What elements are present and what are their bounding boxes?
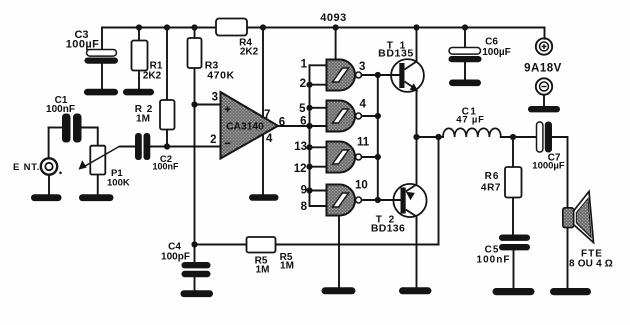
- ground below R1: [123, 89, 154, 96]
- resistor R3: [188, 38, 202, 68]
- wire R2 bottom lead: [166, 130, 168, 147]
- NAND gate G3 (pins 13,12,11): [327, 142, 362, 173]
- potentiometer P1 body: [90, 146, 105, 175]
- label R5 first: [255, 256, 270, 276]
- svg-text:1: 1: [301, 59, 308, 71]
- label R5 second: [280, 252, 294, 272]
- input jack ENT: [41, 158, 57, 174]
- label FTE speaker: [569, 249, 613, 270]
- wire gate1 input pin1: [310, 64, 327, 66]
- NAND gate G4 (pins 9,8,10): [327, 185, 362, 216]
- svg-text:3: 3: [212, 92, 218, 104]
- wire R1 bottom lead: [138, 71, 140, 90]
- wire R2 top lead: [166, 28, 168, 101]
- wire R3 bottom lead to node: [194, 68, 196, 105]
- wire gate4 body to ground: [338, 216, 340, 289]
- resistor R5: [247, 237, 276, 253]
- battery minus terminal: [536, 78, 552, 94]
- ground below P1: [79, 194, 114, 201]
- label P1: [107, 168, 130, 189]
- wire feedback horizontal through R5: [195, 244, 439, 246]
- wire node to C4/R5 vertical: [194, 105, 196, 245]
- wire R6 top lead: [512, 137, 514, 167]
- label C5: [477, 245, 511, 266]
- ground below C4: [181, 290, 214, 297]
- ground below C5: [493, 288, 535, 295]
- svg-text:100nF: 100nF: [152, 162, 179, 172]
- label C1: [46, 95, 75, 115]
- svg-text:2: 2: [210, 134, 216, 146]
- wire C2 to op-amp pin2: [150, 146, 221, 148]
- svg-text:100pF: 100pF: [161, 252, 190, 263]
- resistor R6: [505, 167, 522, 198]
- NAND gate G2 (pins 5,6,4): [327, 101, 362, 132]
- svg-text:100K: 100K: [107, 178, 130, 189]
- input jack period mark: [59, 172, 62, 175]
- svg-text:9A18V: 9A18V: [524, 63, 562, 75]
- svg-text:1M: 1M: [280, 261, 294, 272]
- svg-text:2K2: 2K2: [143, 71, 162, 82]
- wire T2 emitter up: [416, 137, 418, 185]
- svg-text:4: 4: [266, 133, 273, 145]
- capacitor C5: [499, 235, 530, 251]
- svg-text:12: 12: [294, 163, 307, 175]
- battery plus terminal: [536, 38, 552, 54]
- svg-text:7: 7: [264, 109, 270, 121]
- svg-text:100nF: 100nF: [477, 255, 511, 266]
- wire gate4 output to T2 base: [362, 199, 401, 201]
- svg-text:4R7: 4R7: [481, 183, 501, 194]
- wire gate2 output: [362, 115, 378, 117]
- wire C6 to ground: [464, 63, 466, 80]
- wire P1 bottom to ground: [97, 175, 99, 195]
- speaker FTE: [563, 192, 594, 243]
- svg-text:BD136: BD136: [371, 223, 405, 235]
- svg-text:6: 6: [279, 117, 285, 129]
- wire inductor to C7: [501, 136, 537, 138]
- capacitor C6 electrolytic: [449, 48, 482, 63]
- op-amp U1 CA3140: [221, 92, 279, 159]
- wire input jack drop: [48, 128, 50, 158]
- wire 4093 supply from rail: [335, 28, 337, 61]
- svg-text:2K2: 2K2: [240, 47, 259, 58]
- label inductor C1 47uF: [456, 107, 484, 126]
- wire C5 to ground: [513, 251, 515, 289]
- transistor T2 BD136: [393, 184, 426, 217]
- svg-text:4093: 4093: [320, 12, 346, 24]
- svg-text:E NT.: E NT.: [13, 162, 40, 173]
- svg-text:2: 2: [300, 78, 306, 90]
- wire C4 top lead: [194, 245, 196, 263]
- wire R6 to C5: [512, 198, 514, 235]
- wire op-amp output to gate inputs: [278, 125, 327, 127]
- svg-text:10: 10: [355, 180, 368, 192]
- capacitor C1: [62, 114, 82, 143]
- inductor coil 47uF: [443, 128, 501, 137]
- label C3: [66, 29, 99, 51]
- NAND gate G1 (pins 1,2,3): [327, 60, 362, 91]
- wire gate3 input pin12: [310, 166, 327, 168]
- wire C3 drop from rail: [101, 28, 103, 50]
- ground op-amp pin4: [249, 194, 279, 200]
- svg-text:8: 8: [301, 201, 308, 213]
- ground below input jack: [31, 194, 62, 201]
- wire R1 top lead: [138, 28, 140, 41]
- resistor R2: [160, 100, 175, 130]
- wire input jack to ground: [48, 175, 50, 194]
- wire gate4 input pin9: [310, 190, 327, 192]
- wire top supply rail left segment: [102, 27, 216, 29]
- wire op-amp pin7/pin4 vertical: [262, 28, 264, 195]
- wire T2 collector to ground: [416, 217, 418, 289]
- svg-text:CA3140: CA3140: [226, 122, 264, 133]
- wire C1 to P1 top: [82, 128, 98, 147]
- label R1: [143, 61, 163, 82]
- capacitor C7 electrolytic output: [537, 122, 553, 153]
- ground below gate4: [322, 287, 356, 294]
- wire battery minus to ground: [543, 95, 545, 107]
- label C7: [532, 153, 565, 172]
- wire gate4 input pin8: [310, 205, 327, 207]
- wire top supply rail right segment: [247, 27, 545, 29]
- wire R3 top lead: [194, 28, 196, 39]
- ground below battery: [528, 106, 560, 112]
- wire rail to battery plus: [544, 28, 546, 39]
- label T2: [371, 215, 405, 235]
- svg-text:4: 4: [360, 99, 367, 111]
- wire C3 to ground: [101, 63, 103, 90]
- wire gate3 input pin13: [310, 146, 327, 148]
- label R3: [205, 60, 235, 82]
- svg-text:3: 3: [359, 61, 365, 73]
- svg-text:9: 9: [301, 185, 307, 197]
- ground below speaker: [550, 288, 591, 295]
- capacitor C2: [135, 133, 150, 160]
- ground below T2: [399, 287, 432, 294]
- wire gate1 output to T1 base: [362, 74, 400, 76]
- svg-text:R6: R6: [485, 171, 500, 182]
- svg-text:100nF: 100nF: [46, 104, 75, 115]
- label C2: [152, 154, 179, 172]
- label R2: [135, 104, 154, 125]
- svg-text:13: 13: [294, 141, 307, 153]
- svg-text:1000µF: 1000µF: [532, 161, 565, 172]
- wire gate output bus: [377, 75, 379, 200]
- label C6: [482, 37, 511, 59]
- label C4: [161, 242, 190, 263]
- ground below C6: [449, 80, 481, 87]
- svg-text:100µF: 100µF: [66, 39, 99, 51]
- svg-text:8 OU 4 Ω: 8 OU 4 Ω: [569, 259, 613, 270]
- svg-text:47 µF: 47 µF: [456, 115, 484, 126]
- wire gate input bus: [309, 65, 311, 206]
- capacitor C4: [182, 262, 211, 277]
- wire feedback vertical: [438, 137, 440, 245]
- wire gate2 input pin5: [310, 107, 327, 109]
- svg-text:1M: 1M: [256, 265, 270, 276]
- svg-text:1M: 1M: [136, 114, 150, 125]
- wire gate1 input pin2: [310, 84, 327, 86]
- label T1: [378, 41, 414, 60]
- wire C7 to speaker branch: [552, 137, 568, 288]
- svg-text:470K: 470K: [207, 70, 235, 82]
- potentiometer P1 wiper arrow: [79, 146, 121, 170]
- capacitor C3 electrolytic: [85, 50, 119, 64]
- wire output node to inductor: [417, 136, 444, 138]
- svg-text:5: 5: [299, 103, 306, 115]
- svg-text:6: 6: [300, 116, 306, 128]
- wire C4 bottom to ground: [194, 277, 196, 291]
- wire P1 wiper to C2: [120, 146, 135, 148]
- wire T1 collector to rail: [416, 28, 418, 62]
- svg-text:C6: C6: [485, 37, 498, 48]
- ground below C3: [84, 89, 118, 96]
- svg-text:11: 11: [357, 137, 370, 149]
- wire C6 drop from rail: [464, 28, 466, 48]
- resistor R1: [132, 41, 148, 71]
- transistor T1 BD135: [391, 59, 424, 92]
- wire T1 emitter down: [416, 90, 418, 137]
- resistor R4: [216, 19, 247, 36]
- wire input jack to C1: [49, 127, 62, 129]
- svg-text:100µF: 100µF: [482, 47, 511, 58]
- wire op-amp pin3 input: [195, 104, 221, 106]
- wire gate3 output: [362, 156, 378, 158]
- svg-text:BD135: BD135: [378, 48, 414, 60]
- label R4: [239, 38, 259, 58]
- label R6: [481, 171, 501, 194]
